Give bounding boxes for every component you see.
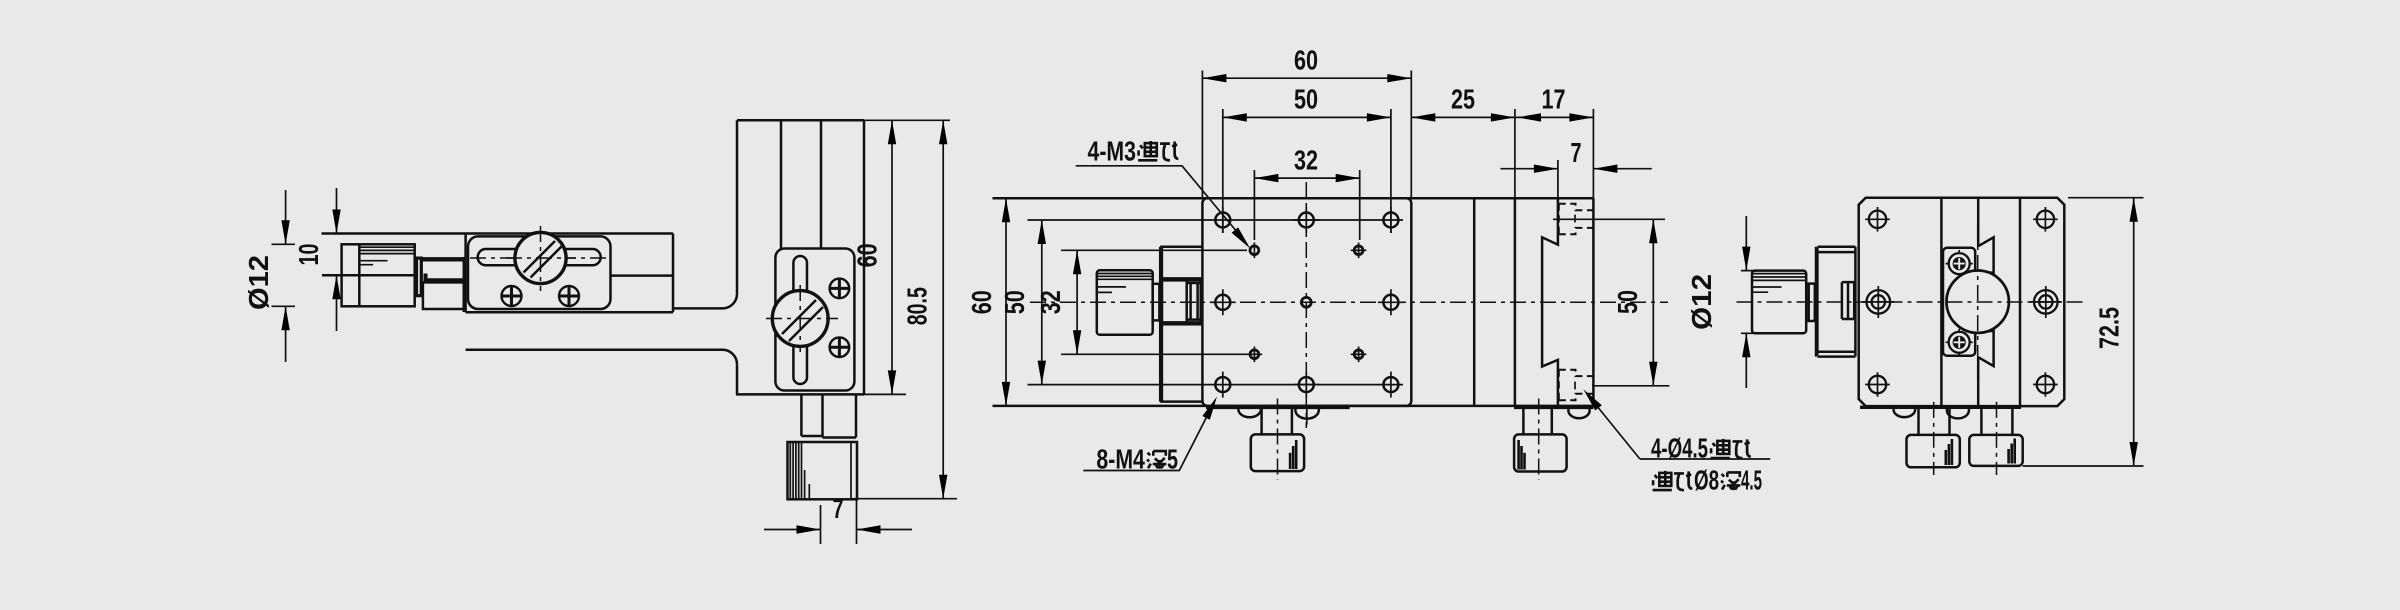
spindle collar (middle view) [1153,284,1160,321]
knob knurl fan right (right view) [2009,439,2015,464]
dim Ø12 arrows (left view) [285,190,287,362]
bottom knob right (middle view) [1514,434,1567,471]
knob neck right (middle view) [1523,408,1551,435]
bearing screw top (right view) [1946,250,1973,277]
svg-text:80.5: 80.5 [902,287,933,325]
corner screw bl (right view) [1865,372,1890,397]
dim 17 line (middle view) [1515,116,1594,118]
bearing block (right view) [1943,248,1975,356]
label 4-M3 underline and leader [1076,166,1245,242]
svg-text:60: 60 [1294,44,1318,75]
main plate outline (middle view) [1202,198,1411,406]
hidden counterbore top (middle view) [1559,204,1594,235]
knob neck right (right view) [1981,408,2012,435]
stage body top line (left view) [322,232,674,235]
lock knob circle (left view) [515,232,566,283]
bottom knob knurl (left view) [790,442,851,499]
body block thick edges (middle view) [1162,280,1201,323]
label 4-Ø4.5 leader (right view) [1588,395,1640,459]
dim 80.5 ext line (left view) [853,498,957,500]
dome screw head dovetail (middle view) [1568,408,1589,419]
M4 hole r3c3 (middle view) [1378,289,1404,315]
screw top (left view vertical plate) [830,279,850,299]
knob knurl fan right (middle view) [1519,440,1525,470]
M4 hole r5c2 (middle view) [1293,372,1319,398]
corner screw tl (right view) [1865,207,1890,232]
wedge top (right view) [1978,237,1994,273]
svg-text:60: 60 [966,290,997,314]
label 8-M4 cjk char [1147,451,1166,469]
dim Ø12 arrows (right view) [1745,216,1747,388]
svg-text:4.5: 4.5 [1741,465,1762,496]
svg-text:Ø12: Ø12 [1686,274,1717,330]
knob centerline right (middle view) [1538,399,1540,481]
svg-text:7: 7 [833,493,844,524]
vertical slot capsule (left view) [793,256,807,384]
M4 hole r5c3 (middle view) [1383,372,1398,398]
center screw tick (middle view) [1306,408,1308,425]
screw right (left view plate) [559,286,579,306]
dim 60 ext lines (left view) [864,120,950,394]
vertical plate rounded rect (left view) [775,249,854,391]
micrometer knob (left view) [342,244,415,306]
M3 hole r4c1 (middle view) [1247,347,1263,363]
spindle collar (right view) [1809,284,1815,321]
dim 32 top line (middle view) [1254,177,1359,179]
corner screw tr (right view) [2033,207,2058,232]
body left double edge (left view) [463,257,466,312]
svg-text:Ø8: Ø8 [1694,465,1719,496]
column outline (left view) [736,120,864,394]
vertical centerline (right view) [1977,225,1979,378]
knob knurl lines (left view) [359,247,414,265]
bottom knob right (right view) [1969,435,2022,466]
bracket edge (right view) [1816,247,1817,357]
knob centerline left (middle view) [1277,399,1279,481]
slot right (left view plate) [553,249,601,265]
dim 50 top line (middle view) [1223,116,1391,118]
svg-text:50: 50 [1612,290,1643,314]
dim 7 ext line (middle view) [1557,160,1559,198]
dim 32 left line (middle view) [1076,250,1078,354]
dim 7 arrows (left view) [764,529,912,531]
stage body outline (left view) [466,234,673,313]
micrometer knob (middle view) [1097,270,1153,334]
dim 72.5 line (right view) [2133,198,2135,466]
hidden counterbore bottom (middle view) [1559,370,1594,401]
bracket arm bottom edge (left view) [466,350,737,365]
dome screw head center (middle view) [1295,407,1318,419]
stage top edge (middle view) [993,197,1594,200]
row ext lines through holes (middle view) [1028,220,1404,385]
dim 60 line (left view) [891,120,893,394]
knob knurl fan left (middle view) [1290,440,1296,469]
knob crosshair (left view) [506,226,576,291]
M3 hole r4c2 (middle view) [1351,347,1367,363]
knob neck left (right view) [1919,408,1950,435]
svg-text:4-M3: 4-M3 [1088,136,1137,167]
svg-text:50: 50 [1294,84,1318,115]
rail line left (right view) [1940,198,1943,406]
carriage line segments (right view) [1977,198,1980,406]
dim 25 ext line (middle view) [1514,109,1516,198]
svg-text:60: 60 [852,243,883,267]
label line2 text [1653,471,1672,490]
bottom knob (left view) [788,442,858,499]
dim 60 top ext lines (middle view) [1202,71,1411,199]
main plate chamfered outline (right view) [1859,198,2065,406]
svg-text:Ø12: Ø12 [243,255,274,310]
M4 hole r3c1 (middle view) [1210,289,1236,315]
drive shaft circle (right view) [1947,271,2009,333]
M4 hole r5c1 (middle view) [1215,372,1230,398]
label 8-M4 underline and leader [1083,404,1213,471]
svg-text:4-Ø4.5: 4-Ø4.5 [1651,433,1708,464]
svg-text:10: 10 [293,244,324,266]
dim Ø12 ext lines (right view) [1741,271,1757,334]
dim 32 top ext lines (middle view) [1254,170,1359,240]
screw left (left view plate) [502,286,522,306]
M4 hole r1c1 (middle view) [1215,207,1230,233]
horizontal centerline (right view) [1737,301,2084,303]
vertical knob circle (left view) [772,291,828,347]
svg-text:7: 7 [1571,137,1582,168]
lock nut (middle view) [1187,278,1201,324]
spindle bars (left view) [421,259,464,280]
column rail lines (left view) [781,120,821,248]
knob neck left (middle view) [1262,407,1292,434]
lock nut (right view) [1842,282,1854,319]
dim 17 ext line (middle view) [1592,109,1594,198]
knob mid line + 10 ext (left view) [322,274,415,277]
dim 60 top line (middle view) [1202,77,1411,79]
counterbore bottom center tick (middle view) [1574,382,1576,390]
bottom knob left (right view) [1907,435,1960,467]
knob divider (left view) [358,244,361,306]
dim 7 line (middle view) [1500,168,1651,170]
M3 hole r2c2 (middle view) [1351,243,1367,259]
mid screw right (right view) [2030,286,2062,318]
vertical knob hatch (left view) [782,300,823,341]
bottom knob left (middle view) [1251,434,1304,471]
stage bottom edge (middle view) [993,405,1594,408]
label 4-M3 cjk chars [1138,141,1157,160]
svg-text:32: 32 [1294,144,1318,175]
spindle bushing (left view) [417,258,422,296]
dome screw head center (right view) [1947,408,1969,419]
stage bottom thick segments (middle view) [1206,406,1593,409]
svg-text:72.5: 72.5 [2094,307,2125,349]
dovetail break line (middle view) [1542,198,1558,406]
bracket edge (middle view) [1160,247,1202,402]
svg-text:32: 32 [1035,290,1066,314]
body internal verticals (middle view) [1474,198,1593,406]
dim 50 top ext lines (middle view) [1223,109,1391,233]
knob knurl lines (middle view) [1097,274,1153,293]
label 4-Ø4.5 underline [1640,458,1770,460]
M3 hole r2c1 (middle view) [1250,243,1259,259]
vertical knob crosshair (left view) [766,285,838,352]
knob centerline right (right view) [1996,402,1998,475]
bracket arm top edge (left view) [673,294,737,309]
dim 7 ext lines (left view) [821,499,857,544]
micrometer body block (middle view) [1162,278,1201,324]
clevis below column (left view) [801,394,856,437]
M4 hole r1c3 (middle view) [1383,207,1398,233]
corner screw br (right view) [2033,372,2058,397]
dim 25 line (middle view) [1411,116,1515,118]
dome screw head left (middle view) [1238,407,1261,418]
rail line right (right view) [2019,198,2022,406]
knob knurl lines (right view) [1752,274,1806,293]
bracket block (right view) [1817,247,1855,357]
spindle tip block (left view) [424,274,428,283]
knob hatch (left view) [524,241,563,278]
screw bottom (left view vertical plate) [830,337,850,357]
knob knurl fan left (right view) [1946,439,1952,465]
bearing screw bottom (right view) [1946,329,1973,356]
dim 60 left line (middle view) [1005,198,1007,406]
svg-text:25: 25 [1451,84,1475,115]
dim 80.5 line (left view) [942,120,944,498]
knob centerline left (right view) [1933,402,1935,475]
svg-text:17: 17 [1542,84,1566,115]
dim 50 right line (middle view) [1652,219,1654,385]
dim 72.5 ext lines (right view) [2023,198,2144,466]
plate centerline (left view) [470,257,608,259]
anvil block (left view) [423,282,464,309]
counterbore top center tick (middle view) [1574,215,1576,223]
wedge bottom (right view) [1978,331,1994,366]
dim 50 right ext lines (middle view) [1553,219,1669,385]
horizontal centerline (middle view) [1030,301,1668,303]
svg-text:50: 50 [999,290,1030,314]
moving plate rounded rect (left view) [468,236,611,309]
mid screw left (right view) [1862,286,1894,318]
dim Ø12 ext lines (left view) [272,244,296,306]
M4 hole r1c2 (middle view) [1293,207,1319,233]
dim 50 left line (middle view) [1041,220,1043,385]
plate bottom thick edge (right view) [1860,406,2021,409]
slot left (left view plate) [478,249,524,265]
vertical centerline (middle view) [1305,182,1307,428]
dim 10 arrows (left view) [336,188,338,331]
center hole (middle view) [1301,297,1311,307]
dome screw head left (right view) [1894,408,1916,417]
micrometer knob (right view) [1752,271,1806,334]
